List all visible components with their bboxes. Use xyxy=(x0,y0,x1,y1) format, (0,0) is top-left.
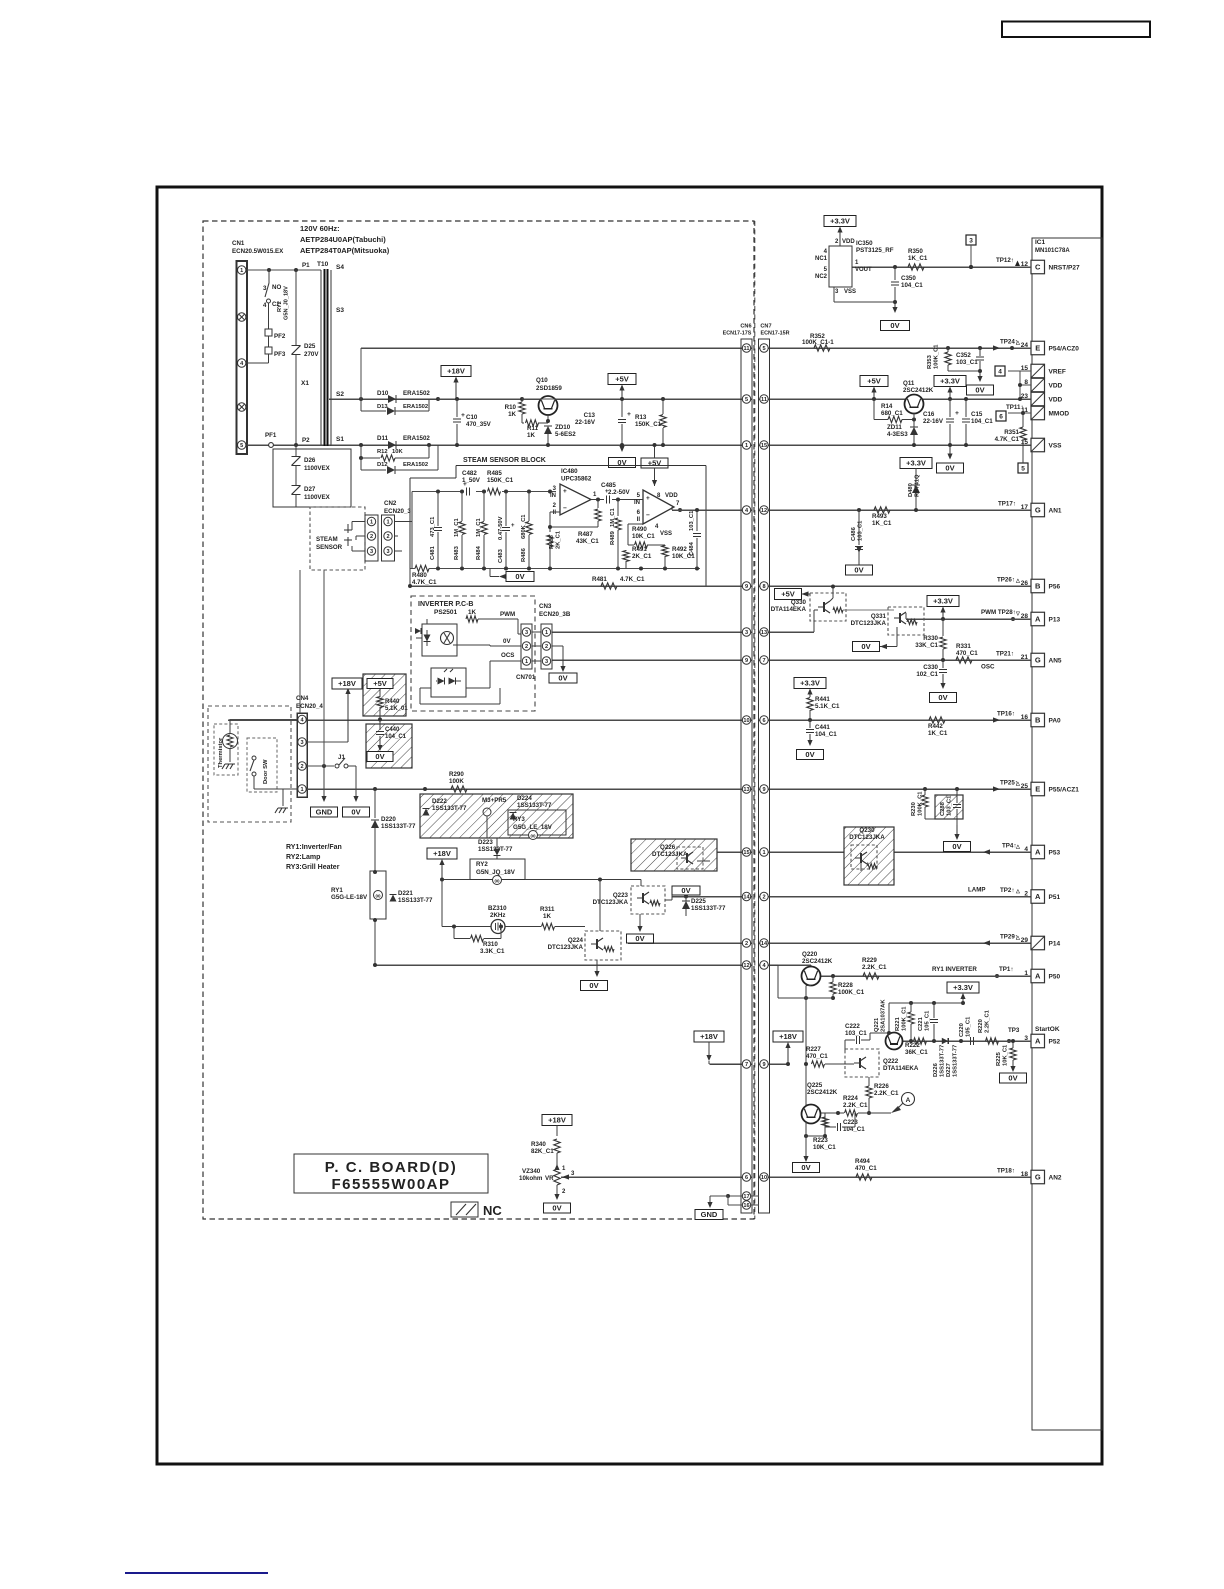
svg-text:Q223: Q223 xyxy=(613,892,629,899)
outer drawing border xyxy=(157,187,1102,1464)
svg-text:0V: 0V xyxy=(952,842,961,851)
relay RY2 coil xyxy=(470,859,525,880)
svg-text:103_C1: 103_C1 xyxy=(956,359,978,366)
CN6 pin 13 xyxy=(742,785,750,793)
svg-text:P50: P50 xyxy=(1049,973,1061,980)
connector CN1 body xyxy=(237,261,248,454)
svg-text:2SC2412K: 2SC2412K xyxy=(903,387,934,394)
svg-text:R311: R311 xyxy=(540,906,555,913)
svg-text:100K_C1-1: 100K_C1-1 xyxy=(802,339,834,346)
CN2 plug pin 2 xyxy=(367,532,375,540)
svg-text:Q222: Q222 xyxy=(883,1058,899,1065)
svg-text:TP3: TP3 xyxy=(1008,1027,1020,1034)
svg-text:R228: R228 xyxy=(838,982,853,989)
svg-text:Q330: Q330 xyxy=(791,599,807,606)
svg-text:G: G xyxy=(1035,1173,1041,1182)
svg-text:II: II xyxy=(553,510,557,516)
0V label box Q222row xyxy=(672,886,700,895)
svg-text:VDD: VDD xyxy=(1049,396,1063,403)
svg-text:Q225: Q225 xyxy=(807,1082,823,1089)
svg-text:Q331: Q331 xyxy=(871,613,887,620)
svg-text:104_C1: 104_C1 xyxy=(901,282,923,289)
svg-text:12: 12 xyxy=(743,963,749,969)
svg-text:11: 11 xyxy=(744,346,750,352)
svg-text:VOUT: VOUT xyxy=(855,267,872,273)
svg-text:+5V: +5V xyxy=(373,679,387,688)
svg-text:0V: 0V xyxy=(801,1163,810,1172)
capacitor C221 xyxy=(930,1019,938,1021)
wire opto1 emitter 0V xyxy=(453,644,490,646)
diode D13 xyxy=(360,399,362,411)
+5V label box Q330 xyxy=(775,589,802,600)
optocoupler U2 body xyxy=(431,668,466,697)
svg-text:A: A xyxy=(1035,892,1041,901)
resistor R340 xyxy=(554,1139,560,1153)
diode D480 xyxy=(912,485,920,493)
IC1 pin P54/ACZ0 xyxy=(1031,341,1045,355)
svg-text:2: 2 xyxy=(386,534,389,540)
svg-text:VSS: VSS xyxy=(660,531,672,537)
svg-text:3: 3 xyxy=(300,740,303,746)
+18V label box RY2 xyxy=(427,848,457,859)
0V label box P14 start xyxy=(627,934,654,943)
svg-text:DTC123JKA: DTC123JKA xyxy=(593,899,629,906)
diode D11 xyxy=(388,441,396,449)
svg-text:1_50V: 1_50V xyxy=(462,477,481,484)
svg-text:14: 14 xyxy=(761,941,768,947)
CN7 pin 9 xyxy=(760,785,768,793)
svg-text:NC: NC xyxy=(483,1203,502,1218)
op-amp IC480a xyxy=(560,484,591,515)
capacitor C220 xyxy=(970,1037,972,1045)
wires steam sensor to CN2 xyxy=(352,521,365,523)
CN701 pin 3 xyxy=(522,628,530,636)
resistor R228 xyxy=(830,982,836,994)
svg-text:ECN17-15R: ECN17-15R xyxy=(760,331,789,337)
svg-text:CN701: CN701 xyxy=(516,674,536,681)
svg-text:IN: IN xyxy=(634,500,640,506)
svg-text:MMOD: MMOD xyxy=(1049,410,1070,417)
connector CN4 body xyxy=(297,713,307,797)
svg-text:43K_C1: 43K_C1 xyxy=(576,538,599,545)
svg-text:+18V: +18V xyxy=(779,1032,797,1041)
svg-text:R491: R491 xyxy=(632,546,647,553)
zener ZD10 xyxy=(544,426,552,434)
wire IC350 VOUT xyxy=(893,265,897,269)
svg-text:R10: R10 xyxy=(505,404,517,411)
svg-text:CN3: CN3 xyxy=(539,603,552,610)
CN7 pin 5 xyxy=(760,344,768,352)
CN2 socket pin 3 xyxy=(384,547,392,555)
svg-text:0V: 0V xyxy=(552,1204,561,1213)
svg-text:2SC2412K: 2SC2412K xyxy=(802,958,833,965)
svg-text:2.2K_C1: 2.2K_C1 xyxy=(874,1090,899,1097)
svg-text:J1: J1 xyxy=(338,754,345,761)
resistor R229 xyxy=(863,973,879,979)
svg-text:2: 2 xyxy=(525,644,528,650)
resistor R483 xyxy=(461,492,463,522)
wire row row 965 xyxy=(374,964,752,966)
svg-text:2: 2 xyxy=(745,941,748,947)
svg-text:LAMP: LAMP xyxy=(968,887,986,894)
svg-text:S4: S4 xyxy=(336,264,344,271)
svg-text:D27: D27 xyxy=(304,486,316,493)
CN4 pin 4 xyxy=(298,715,306,723)
svg-text:AETP284T0AP(Mitsuoka): AETP284T0AP(Mitsuoka) xyxy=(300,246,390,255)
svg-text:STEAM: STEAM xyxy=(316,536,338,543)
svg-text:TP17↑: TP17↑ xyxy=(998,501,1016,508)
svg-text:△: △ xyxy=(1015,578,1020,584)
CN7 pin 6 xyxy=(760,716,768,724)
resistor R310 xyxy=(453,927,455,939)
NC block C440 xyxy=(366,724,412,768)
svg-text:Door SW: Door SW xyxy=(263,759,269,784)
0V label below C288 xyxy=(956,819,958,838)
resistor R494 xyxy=(856,1174,872,1180)
capacitor C288 not mounted xyxy=(935,795,963,819)
svg-text:22-16V: 22-16V xyxy=(575,419,596,426)
wire rectifier output S2 xyxy=(438,398,522,400)
thermistor element xyxy=(227,735,233,747)
svg-text:C350: C350 xyxy=(901,275,916,282)
diode D10 xyxy=(388,395,396,403)
CN7 pin 7 xyxy=(760,656,768,664)
svg-text:16: 16 xyxy=(743,1203,749,1209)
CN6 pin 2 xyxy=(742,939,750,947)
potentiometer VZ340 xyxy=(554,1169,560,1185)
svg-text:R229: R229 xyxy=(862,957,877,964)
svg-text:17: 17 xyxy=(1021,504,1029,511)
IC1 pin P51 xyxy=(1031,890,1045,904)
svg-text:R226: R226 xyxy=(874,1083,889,1090)
svg-text:Q224: Q224 xyxy=(568,937,584,944)
wire Q225 emitter 0V xyxy=(805,1122,807,1160)
svg-text:D221: D221 xyxy=(398,890,413,897)
svg-text:DTA114EKA: DTA114EKA xyxy=(883,1065,919,1072)
svg-text:5: 5 xyxy=(762,346,765,352)
wire steam top rail xyxy=(412,491,460,493)
resistor R222 xyxy=(914,1038,927,1044)
CN7 pin 1 xyxy=(760,848,768,856)
CN2 socket pin 1 xyxy=(384,517,392,525)
svg-text:R331: R331 xyxy=(956,643,971,650)
wire CN1-1 to P1 xyxy=(247,269,321,271)
svg-text:△: △ xyxy=(1015,844,1020,850)
svg-text:ECN20_3: ECN20_3 xyxy=(384,508,411,515)
svg-text:P. C. BOARD(D): P. C. BOARD(D) xyxy=(325,1159,457,1176)
optocoupler U1 body xyxy=(422,624,457,656)
svg-text:P52: P52 xyxy=(1049,1038,1061,1045)
IC1 pin P50 xyxy=(1031,969,1045,983)
PCB name box xyxy=(294,1154,488,1193)
IC1 pin VDD xyxy=(1031,378,1045,392)
0V label box CN4 xyxy=(343,807,370,817)
surge arrester D26 D27 box xyxy=(273,449,351,507)
svg-text:IC480: IC480 xyxy=(561,468,578,475)
svg-text:ERA1502: ERA1502 xyxy=(403,404,428,410)
wire Q223 emitter 0V xyxy=(642,903,644,914)
svg-text:TP18↑: TP18↑ xyxy=(997,1168,1015,1175)
svg-text:105_C1: 105_C1 xyxy=(925,1010,931,1031)
svg-text:C221: C221 xyxy=(918,1016,924,1031)
relay RY3 in NC block xyxy=(508,810,566,835)
svg-text:ECN20_3B: ECN20_3B xyxy=(539,611,571,618)
svg-text:TP2↑: TP2↑ xyxy=(1000,887,1014,894)
svg-text:100K_C1: 100K_C1 xyxy=(902,1006,908,1031)
connector CN701 body xyxy=(521,624,532,669)
svg-text:2.2-50V: 2.2-50V xyxy=(608,489,631,496)
svg-text:RY1: RY1 xyxy=(331,887,343,894)
transistor Q331 DTC123JKA xyxy=(888,607,924,635)
CN1 pin 5 xyxy=(238,441,246,449)
svg-text:26: 26 xyxy=(1021,580,1029,587)
svg-text:R222: R222 xyxy=(905,1042,920,1049)
svg-text:104_C1: 104_C1 xyxy=(385,734,407,740)
varistor D25 xyxy=(292,345,301,347)
wire S2 row xyxy=(331,398,383,400)
svg-text:D226: D226 xyxy=(933,1062,939,1077)
svg-text:0V: 0V xyxy=(938,693,947,702)
CN6 pin 11 xyxy=(742,344,750,352)
wire CN4-2 to J1 xyxy=(307,765,334,767)
capacitor C350 xyxy=(891,281,899,283)
svg-text:CN4: CN4 xyxy=(296,695,309,702)
svg-text:PWM TP28↑: PWM TP28↑ xyxy=(981,609,1016,616)
transistor Q220 2SC2412K xyxy=(802,967,821,986)
svg-text:RY1:Inverter/Fan: RY1:Inverter/Fan xyxy=(286,844,342,851)
svg-text:TP1↑: TP1↑ xyxy=(999,966,1013,973)
svg-text:9: 9 xyxy=(745,658,748,664)
wires CN2 to divider xyxy=(395,521,413,523)
vertical bus Q220-Q225 xyxy=(805,998,807,1106)
capacitor C482 xyxy=(466,488,468,496)
wires CN701 to CN3 xyxy=(532,631,541,633)
CN6 pin 10 xyxy=(742,716,750,724)
svg-text:15: 15 xyxy=(761,443,767,449)
svg-text:GND: GND xyxy=(316,808,333,817)
resistor R488 xyxy=(549,527,551,532)
svg-text:F65555W00AP: F65555W00AP xyxy=(331,1176,450,1193)
svg-text:R351: R351 xyxy=(1004,429,1019,436)
svg-text:+5V: +5V xyxy=(648,459,662,468)
0V label box VZ340 xyxy=(544,1203,571,1213)
svg-text:R488: R488 xyxy=(549,534,555,549)
svg-text:25: 25 xyxy=(1021,783,1029,790)
svg-text:D222: D222 xyxy=(432,798,447,805)
+5V label box Q10 xyxy=(608,374,636,385)
wire buzzer row xyxy=(441,880,443,927)
svg-text:1SS133T-77: 1SS133T-77 xyxy=(953,1045,959,1077)
svg-text:△: △ xyxy=(1015,935,1020,941)
svg-text:100K: 100K xyxy=(449,778,464,785)
svg-text:680K_C1: 680K_C1 xyxy=(521,514,527,539)
wire row P14 xyxy=(628,942,752,944)
zener ZD11 xyxy=(910,427,918,435)
svg-text:11: 11 xyxy=(761,397,767,403)
wire row row 1064 xyxy=(710,1063,752,1065)
wire row P54/ACZ0 xyxy=(361,347,752,349)
svg-text:A: A xyxy=(1035,1037,1041,1046)
+18V label box rectifier xyxy=(441,366,471,377)
CN6 pin 4 xyxy=(742,506,750,514)
svg-text:R220: R220 xyxy=(978,1019,984,1033)
resistor R230 pullup xyxy=(922,795,928,807)
svg-text:C: C xyxy=(1035,263,1041,272)
svg-text:RY2:Lamp: RY2:Lamp xyxy=(286,854,320,861)
svg-text:X1: X1 xyxy=(301,380,309,387)
wire row VSS xyxy=(246,444,752,446)
capacitor C223 xyxy=(837,1123,839,1131)
svg-text:E: E xyxy=(1035,344,1040,353)
steam sensor dashed box xyxy=(310,507,365,570)
svg-text:2SA1037AK: 2SA1037AK xyxy=(881,999,887,1032)
svg-text:RY3: RY3 xyxy=(513,816,525,823)
arrester D26 xyxy=(292,456,301,458)
svg-text:R14: R14 xyxy=(881,403,893,410)
svg-text:C288: C288 xyxy=(940,801,946,816)
resistor R223 xyxy=(822,1117,828,1127)
CN6 pin 15 xyxy=(742,848,750,856)
svg-text:D224: D224 xyxy=(517,795,532,802)
svg-text:R494: R494 xyxy=(855,1158,870,1165)
svg-text:Q10: Q10 xyxy=(536,377,548,384)
wire AN1 inside block xyxy=(672,509,741,511)
+3.3V label box R441 xyxy=(794,678,826,689)
svg-text:+18V: +18V xyxy=(700,1032,718,1041)
CN7 pin 15 xyxy=(760,441,768,449)
svg-text:1SS133T-77: 1SS133T-77 xyxy=(517,802,552,809)
0V label below C441 xyxy=(809,734,811,742)
CN2 plug pin 3 xyxy=(367,547,375,555)
svg-text:SENSOR: SENSOR xyxy=(316,544,343,551)
svg-text:4-3ES3: 4-3ES3 xyxy=(887,431,908,438)
wire RY1 bottom to row965 xyxy=(374,919,376,965)
0V label below C352 xyxy=(979,371,981,378)
svg-text:P13: P13 xyxy=(1049,616,1061,623)
svg-text:TP21↑: TP21↑ xyxy=(996,651,1014,658)
svg-text:A: A xyxy=(1035,848,1041,857)
CN3 pin 1 xyxy=(542,628,550,636)
resistor R226 xyxy=(866,1086,872,1098)
IC1 pin P53 xyxy=(1031,845,1045,859)
svg-text:1M_C1: 1M_C1 xyxy=(476,518,482,537)
svg-text:16: 16 xyxy=(1021,714,1029,721)
svg-text:P55/ACZ1: P55/ACZ1 xyxy=(1049,786,1080,793)
svg-text:B: B xyxy=(1035,716,1041,725)
resistor R493 xyxy=(874,507,890,513)
vertical wire steam to CN4 row xyxy=(299,570,301,713)
svg-text:103_C1: 103_C1 xyxy=(845,1030,867,1037)
svg-text:100K_C1: 100K_C1 xyxy=(918,791,924,816)
svg-text:+5V: +5V xyxy=(867,377,881,386)
+5V label box Q11 xyxy=(860,376,888,387)
svg-text:0V: 0V xyxy=(635,934,644,943)
svg-text:2: 2 xyxy=(545,644,548,650)
svg-text:DTC123JKA: DTC123JKA xyxy=(851,620,887,627)
CN7 pin 9 xyxy=(760,1060,768,1068)
connector CN7 body xyxy=(759,339,770,1213)
svg-text:1SS133T-77: 1SS133T-77 xyxy=(691,905,726,912)
svg-text:2: 2 xyxy=(762,895,765,901)
svg-text:3: 3 xyxy=(969,237,973,244)
svg-text:D25: D25 xyxy=(304,343,316,350)
capacitor C484 xyxy=(696,510,698,531)
svg-text:Q221: Q221 xyxy=(874,1017,880,1032)
resistor R491 xyxy=(623,551,629,562)
CN2 socket pin 2 xyxy=(384,532,392,540)
svg-text:C486: C486 xyxy=(851,526,857,541)
resistor R441 xyxy=(807,698,813,711)
+3.3V label box IC350 xyxy=(824,216,856,227)
svg-text:4.7K_C1: 4.7K_C1 xyxy=(412,579,437,586)
svg-text:470_C1: 470_C1 xyxy=(956,650,978,657)
resistor R484 xyxy=(483,492,485,522)
svg-text:VREF: VREF xyxy=(1049,368,1066,375)
P.C. board dashed outline xyxy=(203,221,754,1219)
wire row AN1 xyxy=(672,509,752,511)
svg-text:B: B xyxy=(1035,582,1041,591)
svg-text:A: A xyxy=(1035,972,1041,981)
svg-text:R490: R490 xyxy=(632,526,647,533)
CN1 pin x2 xyxy=(238,313,246,321)
boxed net 6 xyxy=(996,411,1006,421)
svg-text:104_C1: 104_C1 xyxy=(971,418,993,425)
svg-text:2K_C1: 2K_C1 xyxy=(632,553,652,560)
svg-text:+: + xyxy=(461,412,465,419)
svg-text:R13: R13 xyxy=(635,414,647,421)
svg-text:G: G xyxy=(1035,656,1041,665)
svg-text:+3.3V: +3.3V xyxy=(800,679,820,688)
svg-text:DTC123JKA: DTC123JKA xyxy=(849,834,885,841)
svg-text:24: 24 xyxy=(1021,342,1029,349)
svg-text:Thermistor: Thermistor xyxy=(218,737,224,768)
svg-text:0V: 0V xyxy=(515,572,524,581)
capacitor C485 xyxy=(606,496,608,504)
CN2 plug pin 1 xyxy=(367,517,375,525)
svg-text:R350: R350 xyxy=(908,248,923,255)
svg-text:△: △ xyxy=(1015,781,1020,787)
svg-text:II: II xyxy=(637,517,641,523)
svg-text:Q220: Q220 xyxy=(802,951,818,958)
svg-text:PST3125_RF: PST3125_RF xyxy=(856,247,894,254)
svg-text:4: 4 xyxy=(998,368,1002,375)
svg-text:+18V: +18V xyxy=(338,679,356,688)
svg-text:AN1: AN1 xyxy=(1049,507,1062,514)
svg-text:1: 1 xyxy=(300,787,303,793)
svg-text:0V: 0V xyxy=(945,464,954,473)
svg-text:G5G_LE_18V: G5G_LE_18V xyxy=(513,824,553,831)
GND label box CN4 xyxy=(311,807,338,817)
wire row row 632 xyxy=(553,631,753,633)
optocoupler U2 photodiode xyxy=(438,678,445,685)
svg-text:NO: NO xyxy=(272,284,281,291)
wire row PA0 xyxy=(228,719,752,721)
+18V label box VZ340 xyxy=(542,1115,572,1126)
CN7 pin 8 xyxy=(760,582,768,590)
resistor R221 xyxy=(908,1012,914,1024)
CN6 pin 9 xyxy=(742,582,750,590)
svg-text:STEAM SENSOR BLOCK: STEAM SENSOR BLOCK xyxy=(463,457,546,464)
svg-text:RB741Q: RB741Q xyxy=(915,474,921,497)
CN6 pin 16 xyxy=(728,1204,759,1206)
transistor Q225 2SC2412K xyxy=(802,1105,821,1124)
pcb boundary dashed line between CN6 CN7 xyxy=(754,221,756,1219)
+18V label box CN4 xyxy=(332,678,362,689)
revision underline bottom-left xyxy=(125,1572,268,1574)
resistor R220 xyxy=(986,1038,999,1044)
0V label below C330 xyxy=(942,674,944,685)
svg-text:C441: C441 xyxy=(815,724,830,731)
